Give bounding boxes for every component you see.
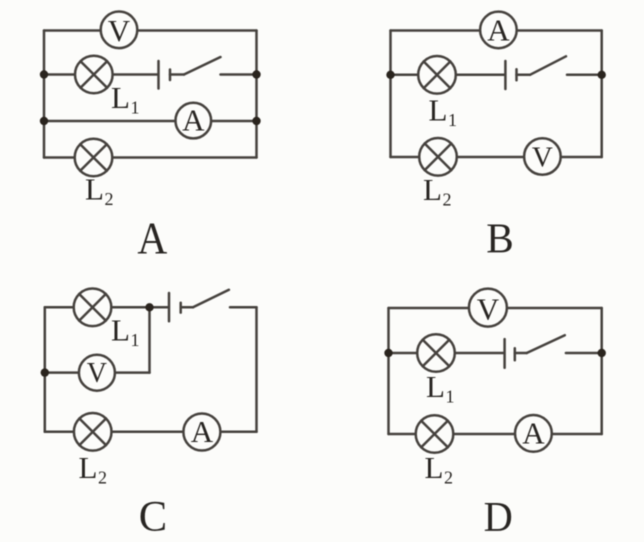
wire: left side of loop D [387, 308, 390, 434]
svg-text:L: L [426, 369, 445, 404]
svg-text:L: L [425, 450, 444, 485]
lamp L2 (circuit B) [419, 138, 457, 176]
voltmeter V (circuit A) [101, 12, 138, 49]
wire: switch fixed contact to right node (A) [221, 73, 257, 76]
svg-text:L: L [111, 313, 130, 348]
svg-text:A: A [182, 102, 205, 137]
lamp L2 (circuit A) [75, 139, 113, 177]
wire: left side of loop B [389, 31, 392, 158]
junction node: right of row2 (B) [598, 71, 606, 79]
ammeter A (circuit C) [183, 414, 220, 451]
wire: branch with L1 and battery (row 2 of B) [391, 74, 506, 77]
svg-text:B: B [486, 216, 513, 263]
lamp L2 (circuit C) [74, 413, 112, 451]
wire: right side of loop D [600, 308, 603, 434]
lamp L1 (circuit B) [418, 56, 456, 94]
wire: branch with L1 and battery (row 2 of A) [44, 73, 158, 76]
battery cell (circuit D): long plate [503, 339, 506, 368]
switch S (circuit A): open blade [184, 57, 221, 75]
svg-text:1: 1 [446, 387, 455, 407]
junction node: right of row2 (A) [252, 70, 260, 78]
wire: switch fixed contact to right node (B) [567, 74, 602, 77]
voltmeter V (circuit B) [524, 138, 561, 175]
wire: branch with L1 and battery (row 2 of D) [389, 352, 505, 355]
svg-text:A: A [487, 12, 510, 47]
ammeter A (circuit B) [480, 12, 517, 49]
wire: battery to switch pivot (B) [517, 74, 531, 77]
svg-text:L: L [79, 450, 98, 485]
voltmeter V (circuit C) [79, 355, 115, 391]
switch S (circuit B): open blade [530, 56, 566, 75]
wire: switch fixed contact to right node (D) [566, 352, 602, 355]
svg-text:C: C [139, 493, 167, 540]
lamp L2 (circuit D) [416, 415, 454, 453]
wire: right side of loop A [255, 31, 258, 158]
wire: right side of loop B [600, 31, 603, 158]
lamp L1 (circuit A) [75, 56, 113, 94]
junction node: after L1 on top branch (C) [145, 303, 153, 311]
wire: top side of loop B [391, 29, 602, 32]
svg-text:L: L [429, 93, 448, 128]
battery cell (circuit B): short plate [515, 69, 518, 80]
voltmeter V (circuit D) [469, 289, 507, 327]
wire: bottom branch with L2 (A) [44, 156, 257, 159]
svg-text:2: 2 [98, 468, 107, 488]
svg-text:V: V [108, 13, 131, 48]
svg-text:2: 2 [105, 189, 114, 209]
ammeter A (circuit A) [176, 103, 212, 139]
svg-text:V: V [532, 142, 553, 174]
junction node: right of row3 (A) [252, 117, 260, 125]
lamp L1 (circuit C) [74, 289, 112, 327]
wire: voltmeter branch riser up to node after L1 (C) [148, 307, 151, 372]
wire: voltmeter branch (C) [45, 371, 150, 374]
svg-text:V: V [87, 358, 107, 389]
wire: top side of loop A [44, 29, 257, 32]
wire: right side of loop C [255, 307, 258, 432]
lamp L1 (circuit D) [417, 334, 455, 372]
battery cell (circuit C): long plate [168, 293, 171, 321]
svg-text:2: 2 [443, 190, 452, 210]
wire: top side of loop D [389, 307, 602, 310]
svg-text:V: V [477, 291, 500, 326]
wire: switch fixed contact to top-right corner (C) [230, 306, 257, 309]
wire: left side of loop A [43, 31, 46, 158]
switch S (circuit C): open blade [193, 290, 229, 308]
svg-text:A: A [522, 416, 545, 451]
battery cell (circuit D): short plate [514, 348, 517, 360]
junction node: left of row3 (A) [40, 117, 48, 125]
battery cell (circuit C): short plate [179, 303, 182, 313]
junction node: left of row2 (D) [384, 349, 392, 357]
wire: battery to switch pivot (A) [170, 73, 184, 76]
junction node: left side at voltmeter branch (C) [41, 368, 49, 376]
wire: battery to switch pivot (D) [515, 352, 527, 355]
junction node: left of row2 (A) [40, 70, 48, 78]
wire: branch with ammeter (row 3 of A) [44, 120, 257, 123]
wire: battery to switch pivot (C) [181, 306, 193, 309]
junction node: left of row2 (B) [386, 71, 394, 79]
wire: left side of loop C [44, 307, 47, 432]
wire: bottom branch with L2 and voltmeter (B) [391, 156, 602, 159]
svg-text:L: L [85, 172, 104, 207]
battery cell (circuit B): long plate [504, 61, 507, 89]
battery cell (circuit A): short plate [169, 70, 172, 81]
switch S (circuit D): open blade [527, 335, 565, 353]
svg-text:A: A [137, 214, 167, 264]
svg-text:A: A [191, 414, 214, 449]
svg-text:L: L [111, 80, 130, 115]
svg-text:1: 1 [131, 98, 140, 118]
svg-text:D: D [484, 493, 513, 540]
junction node: right of row2 (D) [598, 349, 606, 357]
battery cell (circuit A): long plate [157, 61, 160, 89]
svg-text:L: L [423, 172, 442, 207]
svg-text:1: 1 [448, 110, 457, 130]
svg-text:2: 2 [444, 468, 453, 488]
wire: top branch with L1 and battery (C) [45, 306, 169, 309]
svg-text:1: 1 [131, 330, 140, 350]
ammeter A (circuit D) [515, 415, 552, 452]
wire: bottom branch with L2 and ammeter (C) [45, 431, 257, 434]
wire: bottom branch with L2 and ammeter (D) [389, 433, 602, 436]
